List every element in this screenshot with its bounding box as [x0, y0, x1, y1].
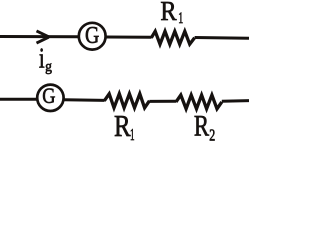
svg-text:G: G: [42, 83, 55, 108]
svg-text:R: R: [194, 110, 210, 141]
wire top-middle segment: [107, 36, 152, 39]
wire top-left segment: [0, 35, 79, 38]
svg-text:2: 2: [209, 126, 215, 141]
resistor R1 (bottom): [104, 94, 149, 108]
galvanometer G2 circle (bottom): [37, 85, 63, 111]
resistor R2 (bottom): [176, 95, 222, 109]
galvanometer G1 circle (top): [79, 23, 106, 50]
svg-text:g: g: [45, 59, 52, 75]
svg-text:R: R: [160, 0, 176, 26]
wire top-right segment: [195, 36, 249, 40]
wire bottom-middle segment: [64, 98, 104, 102]
wire between R1 and R2: [149, 100, 176, 103]
current arrow on top wire: [37, 31, 49, 43]
svg-text:i: i: [39, 42, 45, 74]
svg-text:R: R: [114, 109, 131, 141]
svg-text:1: 1: [130, 125, 135, 141]
svg-text:1: 1: [178, 10, 183, 27]
wire bottom-right segment: [222, 99, 249, 103]
resistor R1 (top): [151, 31, 194, 44]
wire bottom-left segment: [0, 98, 38, 101]
svg-text:G: G: [85, 22, 99, 49]
